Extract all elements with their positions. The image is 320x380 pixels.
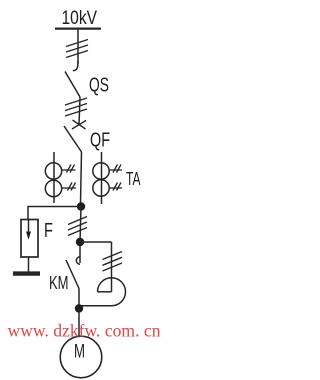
breaker QF blade: [64, 126, 82, 152]
CT right upper secondary lead: [109, 169, 122, 171]
CT right lower secondary slash b: [117, 183, 122, 191]
svg-text:QS: QS: [89, 74, 109, 97]
three-phase slash 4c: [103, 263, 123, 271]
disconnector QS blade: [65, 72, 80, 98]
CT primary wire left: [53, 152, 55, 203]
contactor KM fixed contact arc: [76, 257, 80, 264]
wire node A to node B: [80, 207, 81, 243]
three-phase slash 2c: [65, 109, 87, 116]
wire node C to motor: [78, 309, 80, 337]
wire arrester to ground: [28, 257, 30, 272]
contactor KM blade: [66, 260, 79, 289]
busbar 10kV: [55, 27, 101, 29]
three-phase slash 3a: [68, 217, 87, 225]
three-phase slash 3b: [68, 222, 87, 230]
svg-text:KM: KM: [49, 273, 69, 293]
CT left lower secondary slash b: [71, 183, 76, 191]
three-phase slash 1a: [66, 40, 88, 47]
motor M body: [60, 336, 102, 378]
arrester F arrow shaft: [28, 220, 30, 234]
CT right upper secondary slash a: [113, 165, 118, 173]
CT left upper secondary slash b: [70, 165, 75, 173]
CT right upper secondary slash b: [117, 165, 122, 173]
wire node A to arrester: [28, 207, 81, 220]
wire bus to QS: [77, 29, 79, 64]
three-phase slash 2b: [65, 104, 87, 111]
CT TA left lower winding: [45, 180, 61, 196]
junction node B: [76, 238, 84, 246]
wire contactor to node C: [78, 289, 80, 306]
CT TA left upper winding: [45, 163, 61, 179]
CT TA right upper winding: [93, 163, 109, 179]
breaker QF contact X stroke 1: [72, 121, 86, 130]
CT right lower secondary lead: [109, 187, 122, 189]
three-phase slash 1b: [66, 45, 88, 52]
breaker QF contact X stroke 2: [73, 120, 86, 129]
arrester F body: [21, 220, 38, 258]
three-phase slash 2a: [65, 98, 87, 105]
CT right lower secondary slash a: [113, 183, 118, 191]
reactor L inner lead: [98, 291, 112, 293]
svg-text:QF: QF: [90, 129, 110, 152]
CT left lower secondary lead: [62, 187, 76, 189]
CT left upper secondary lead: [62, 169, 76, 171]
wire node B to reactor branch: [80, 241, 112, 243]
reactor L coil arc: [98, 278, 126, 306]
disconnector QS fixed contact hook: [73, 61, 78, 71]
svg-text:M: M: [74, 342, 85, 363]
svg-text:F: F: [44, 219, 53, 242]
junction node A: [77, 202, 85, 210]
wire reactor return to node C: [79, 305, 112, 307]
three-phase slash 4a: [103, 252, 123, 260]
junction node C: [75, 304, 83, 312]
svg-text:TA: TA: [126, 169, 141, 189]
CT primary wire right: [101, 152, 103, 204]
three-phase slash 1c: [66, 51, 88, 58]
CT left lower secondary slash a: [68, 183, 73, 191]
three-phase slash 3c: [68, 228, 87, 236]
svg-text:www. dzkfw. com. cn: www. dzkfw. com. cn: [8, 321, 161, 341]
wire node B to contactor: [79, 246, 81, 263]
wire QF to node A: [81, 152, 82, 203]
wire reactor lead down: [111, 242, 113, 292]
wire QS to QF: [79, 97, 80, 125]
CT TA right lower winding: [93, 180, 109, 196]
ground: [13, 271, 40, 275]
svg-text:10kV: 10kV: [62, 8, 98, 29]
three-phase slash 4b: [103, 257, 123, 265]
CT left upper secondary slash a: [67, 165, 72, 173]
arrester F arrow head: [26, 232, 31, 240]
